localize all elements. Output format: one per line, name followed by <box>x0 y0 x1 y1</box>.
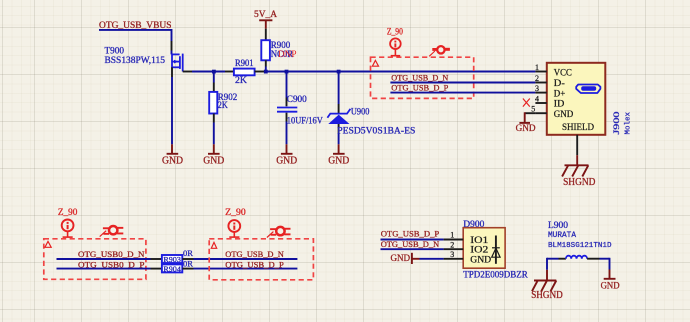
net label OTG_USB_VBUS <box>99 20 172 30</box>
blanket triangle (bottom-left) <box>45 241 51 247</box>
wire to D900 pin1 <box>381 231 464 240</box>
net label OTG_USB_D_N (bottom) <box>225 249 284 259</box>
svg-text:1: 1 <box>450 231 454 240</box>
svg-text:J900: J900 <box>611 112 621 135</box>
label C900 10UF/16V <box>287 94 323 126</box>
svg-text:OTG_USB_D_N: OTG_USB_D_N <box>225 249 284 259</box>
transistor T900 <box>172 54 183 72</box>
svg-text:Z_90: Z_90 <box>225 207 246 217</box>
svg-text:MURATA: MURATA <box>548 232 576 240</box>
net label OTG_USB_D_N (top) <box>391 72 449 82</box>
svg-text:OTG_USB_D_P: OTG_USB_D_P <box>381 228 440 238</box>
svg-text:3: 3 <box>450 250 454 259</box>
svg-text:2K: 2K <box>218 100 228 110</box>
ground GND (R902) <box>203 154 224 167</box>
svg-text:3: 3 <box>535 84 539 93</box>
net label OTG_USB_D_P (D900) <box>381 228 440 238</box>
wire R904 to right box <box>182 268 297 270</box>
blanket triangle (top) <box>372 60 378 66</box>
label R901 2K <box>235 58 254 85</box>
pin name SHIELD <box>562 122 594 132</box>
svg-text:IO2: IO2 <box>470 245 489 255</box>
svg-text:OTG_USB_D_N: OTG_USB_D_N <box>391 72 449 82</box>
connector J900 body <box>547 63 606 135</box>
shield ground SHGND (J900) <box>562 165 595 188</box>
ground GND (T900) <box>162 154 183 167</box>
wire to D900 pin3 <box>420 250 464 259</box>
svg-text:BLM18SG121TN1D: BLM18SG121TN1D <box>548 242 612 250</box>
pin SHIELD wire <box>576 135 578 166</box>
node junction C900 <box>285 70 289 74</box>
svg-text:2: 2 <box>450 240 454 249</box>
resistor R902 <box>209 72 217 154</box>
directive blanket Z_90 (bottom-left) <box>44 239 146 279</box>
label J900 Molex (vertical) <box>611 112 633 135</box>
svg-text:2: 2 <box>535 74 539 83</box>
svg-text:TPD2E009DBZR: TPD2E009DBZR <box>463 270 528 280</box>
label BLM18SG121TN1D <box>548 242 612 250</box>
svg-text:5V_A: 5V_A <box>254 10 277 20</box>
pin name D+ <box>554 88 566 98</box>
pin name GND <box>554 109 574 119</box>
capacitor C900 <box>277 72 297 154</box>
svg-text:GND: GND <box>162 156 183 167</box>
differential pair icon (bottom-left) <box>100 226 124 237</box>
label TPD2E009DBZR <box>463 270 528 280</box>
differential pair icon (top) <box>429 46 450 56</box>
svg-text:SHGND: SHGND <box>563 177 595 188</box>
svg-text:C900: C900 <box>287 94 307 104</box>
label Z_90 (top) <box>387 26 403 36</box>
ground GND (L900) <box>601 279 620 292</box>
svg-text:0R: 0R <box>183 248 193 258</box>
wire L900 left to SHGND <box>546 258 548 281</box>
svg-text:0R: 0R <box>183 258 193 268</box>
svg-text:U900: U900 <box>351 107 370 117</box>
pin 5 <box>531 105 547 114</box>
label R902 2K <box>218 92 238 110</box>
power port 5V_A <box>254 10 277 29</box>
label Z_90 (bottom-right) <box>225 207 246 217</box>
svg-text:Molex: Molex <box>625 112 633 135</box>
net label OTG_USB_D_P (bottom) <box>225 259 284 269</box>
svg-text:GND: GND <box>554 109 574 119</box>
svg-text:SHGND: SHGND <box>531 290 563 301</box>
balloon Z_90 (top) <box>390 38 401 55</box>
svg-text:5: 5 <box>531 105 535 114</box>
pin 2 <box>535 74 547 83</box>
svg-text:BSS138PW,115: BSS138PW,115 <box>105 55 166 65</box>
wire OTG_USB_VBUS horizontal+vertical to T900 drain <box>99 30 172 55</box>
directive blanket Z_90 (bottom-right) <box>209 239 313 280</box>
svg-text:GND: GND <box>470 254 491 264</box>
pin 3 <box>535 84 547 93</box>
wire L900 right to GND <box>609 258 611 279</box>
svg-text:Z_90: Z_90 <box>387 26 403 36</box>
net label OTG_USB0_D_P <box>78 259 145 269</box>
svg-text:GND: GND <box>516 124 536 134</box>
wire to D900 pin2 <box>381 240 464 249</box>
wire D_N to pin2 <box>390 82 535 84</box>
ground GND (C900) <box>276 154 297 167</box>
blanket triangle (bottom-right) <box>211 242 216 248</box>
svg-text:1: 1 <box>535 63 539 72</box>
wire R903 to right box <box>182 258 297 260</box>
svg-text:R903: R903 <box>163 255 181 264</box>
no-ERC cross pin 4 <box>523 99 530 107</box>
svg-text:GND: GND <box>328 156 349 167</box>
svg-text:VCC: VCC <box>554 67 572 77</box>
usb receptacle icon <box>576 85 600 94</box>
svg-text:PESD5V0S1BA-ES: PESD5V0S1BA-ES <box>337 126 415 136</box>
svg-text:D-: D- <box>554 78 565 88</box>
wire OTG_USB0_D_P to R904 <box>57 268 162 270</box>
ground GND (D900 pin3) <box>391 253 420 264</box>
svg-text:R904: R904 <box>163 264 181 273</box>
pin name IO1 <box>470 235 489 245</box>
label T900 BSS138PW,115 <box>105 46 166 66</box>
label Z_90 (bottom-left) <box>58 207 78 217</box>
net label OTG_USB_D_N (D900) <box>381 239 440 249</box>
wire T900 source to GND <box>171 67 173 153</box>
pin name GND (D900) <box>470 254 491 264</box>
svg-text:R901: R901 <box>235 58 254 68</box>
resistor R901 <box>225 69 264 76</box>
svg-text:Z_90: Z_90 <box>58 207 78 217</box>
svg-text:T900: T900 <box>105 46 125 56</box>
svg-text:GND: GND <box>391 254 411 264</box>
svg-text:GND: GND <box>276 156 297 167</box>
label 0R (R903) <box>183 248 193 258</box>
pin name VCC <box>554 67 572 77</box>
svg-text:2K: 2K <box>235 75 248 85</box>
wire OTG_USB0_D_N to R903 <box>57 258 162 260</box>
ic D900 body <box>463 228 505 269</box>
svg-text:GND: GND <box>601 281 620 291</box>
node junction R900 <box>264 70 268 74</box>
label R900 NC0R DNP <box>271 40 297 59</box>
diode U900 TVS <box>327 72 350 154</box>
pin name D- <box>554 78 565 88</box>
svg-text:D+: D+ <box>554 88 566 98</box>
wire main rail to connector pin1 <box>264 71 535 73</box>
svg-text:OTG_USB_D_P: OTG_USB_D_P <box>391 82 448 92</box>
resistor R903 <box>162 255 182 264</box>
wire D_P to pin3 <box>390 92 535 94</box>
shield ground SHGND (L900) <box>531 281 563 302</box>
ground GND (pin5) <box>516 123 536 134</box>
pin name IO2 <box>470 245 489 255</box>
pin 4 <box>535 94 547 103</box>
balloon Z_90 (bottom-left) <box>62 220 74 238</box>
svg-text:OTG_USB_VBUS: OTG_USB_VBUS <box>99 20 172 30</box>
label 0R (R904) <box>183 258 193 268</box>
balloon Z_90 (bottom-right) <box>228 220 240 237</box>
svg-text:ID: ID <box>554 99 565 109</box>
diode symbol inside D900 <box>492 236 500 264</box>
svg-text:10UF/16V: 10UF/16V <box>287 115 323 125</box>
differential pair icon (bottom-right) <box>267 227 291 238</box>
label MURATA <box>548 232 576 240</box>
wire gate rail <box>183 71 225 73</box>
wire pin5 to GND <box>525 112 536 122</box>
svg-text:SHIELD: SHIELD <box>562 122 594 132</box>
svg-text:GND: GND <box>203 156 224 167</box>
svg-text:OTG_USB0_D_N: OTG_USB0_D_N <box>78 249 145 259</box>
ground GND (U900) <box>328 154 349 167</box>
svg-text:4: 4 <box>535 94 539 103</box>
net label OTG_USB0_D_N <box>78 249 145 259</box>
svg-text:OTG_USB_D_N: OTG_USB_D_N <box>381 239 440 249</box>
node junction U900 <box>337 70 341 74</box>
svg-text:IO1: IO1 <box>470 235 489 245</box>
svg-text:DNP: DNP <box>278 49 297 59</box>
label L900 <box>548 220 569 230</box>
label U900 PESD5V0S1BA-ES <box>337 107 415 136</box>
node junction R902/gate <box>212 70 216 74</box>
resistor R904 <box>162 264 182 273</box>
svg-text:L900: L900 <box>548 220 569 230</box>
pin 1 <box>535 63 547 72</box>
directive blanket Z_90 (top) <box>371 57 474 98</box>
label D900 <box>463 219 485 229</box>
pin name ID <box>554 99 565 109</box>
net label OTG_USB_D_P (top) <box>391 82 448 92</box>
resistor R900 <box>261 29 270 72</box>
inductor L900 <box>547 256 610 259</box>
svg-text:OTG_USB_D_P: OTG_USB_D_P <box>225 259 284 269</box>
